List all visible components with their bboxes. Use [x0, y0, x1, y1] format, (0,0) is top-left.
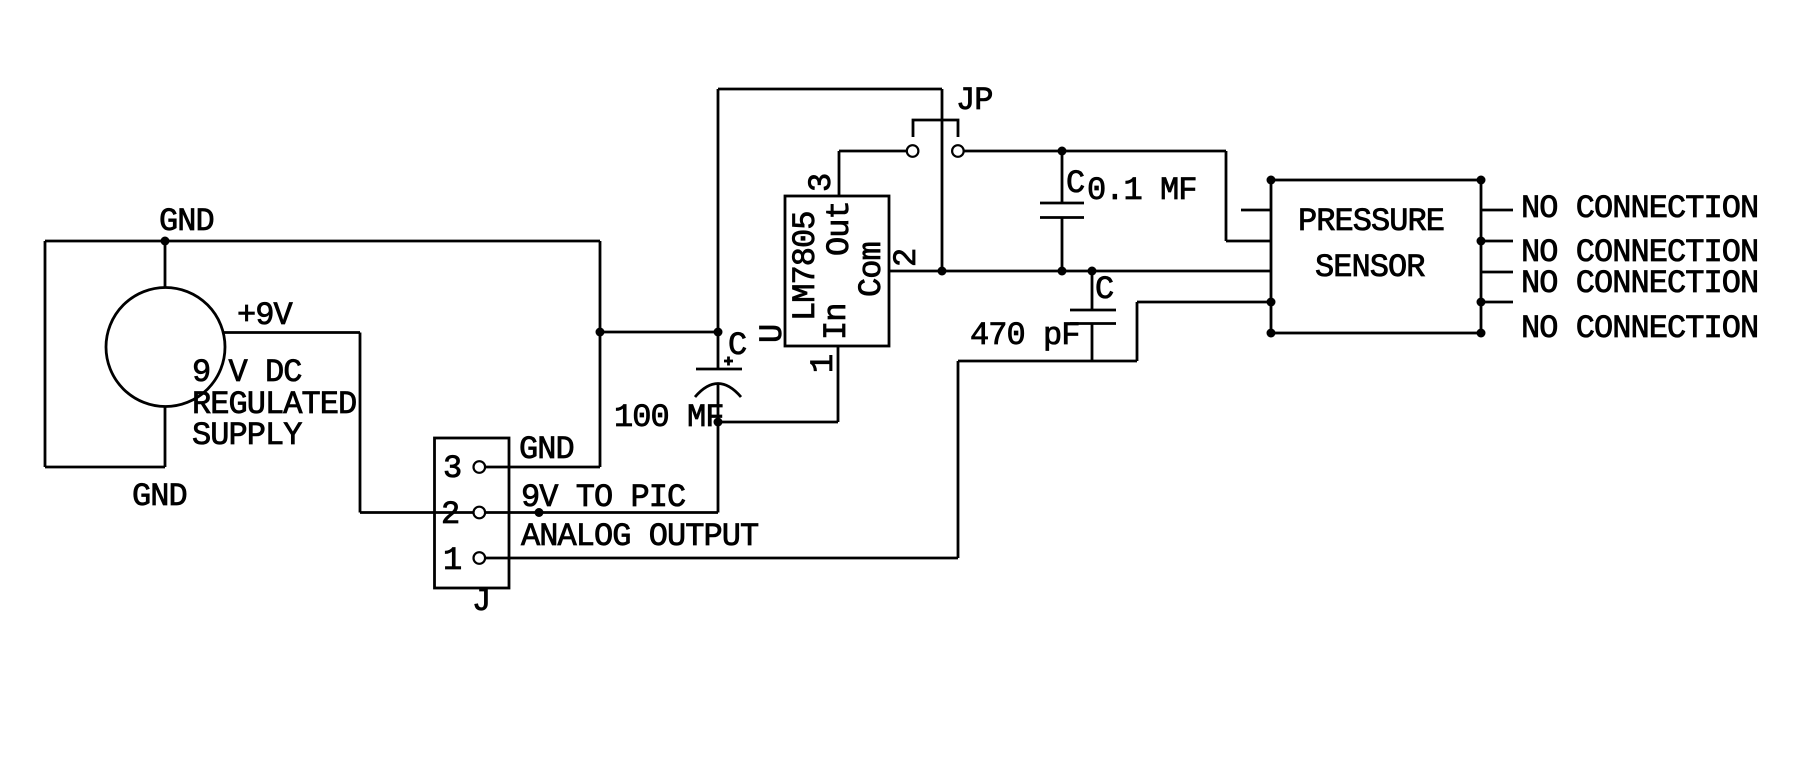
svg-text:2: 2	[441, 496, 459, 533]
node dot pin2 wire	[535, 508, 544, 517]
svg-text:J: J	[472, 583, 490, 620]
node dot right pin2	[1477, 237, 1486, 246]
node dot bottom	[1058, 267, 1067, 276]
wire +9V horizontal	[223, 331, 360, 334]
node dot 942,271	[938, 267, 947, 276]
wire supply loop left	[44, 241, 47, 467]
cap plate top	[1040, 202, 1084, 205]
node dot at 718,332	[714, 328, 723, 337]
net GND branch to regulator area	[485, 241, 723, 467]
wire pin1 In vertical	[837, 346, 840, 422]
wire analog horizontal	[958, 360, 1137, 363]
wire In to cap	[718, 421, 838, 424]
net +9V wiring	[223, 333, 474, 513]
svg-text:PRESSURE: PRESSURE	[1298, 203, 1444, 240]
wire cap lead bottom	[1061, 218, 1064, 272]
wire supply bottom lead	[164, 406, 167, 467]
wire Com rail	[889, 270, 1271, 273]
wire cap bottom lead	[717, 384, 720, 513]
wire cap lead top	[1091, 271, 1094, 310]
wire +9V vertical	[359, 333, 362, 513]
svg-text:2: 2	[888, 249, 925, 267]
svg-text:+9V: +9V	[237, 297, 294, 334]
wire +9V to J pin2	[360, 511, 474, 514]
wire top rail	[718, 88, 942, 91]
wire JP into sensor	[1226, 240, 1271, 243]
connector J box	[435, 438, 510, 588]
cap plate bottom	[1070, 322, 1116, 325]
wire JP right to sensor	[964, 150, 1226, 153]
wire JP vertical down	[1225, 151, 1228, 241]
cap plate straight	[696, 368, 742, 371]
svg-text:U: U	[754, 325, 791, 343]
left stub	[1241, 209, 1271, 212]
node GND junction dot	[161, 237, 170, 246]
capacitor C 470 pF	[970, 267, 1116, 362]
node dot top	[1058, 147, 1067, 156]
pin 1 circle	[474, 552, 486, 564]
svg-text:GND: GND	[159, 203, 214, 240]
svg-text:Com: Com	[853, 242, 890, 297]
svg-text:9V TO PIC: 9V TO PIC	[521, 479, 685, 516]
wire GND branch to cap	[600, 331, 718, 334]
svg-text:ANALOG OUTPUT: ANALOG OUTPUT	[521, 518, 758, 555]
svg-text:GND: GND	[519, 431, 574, 468]
wire pin3 Out vertical	[838, 151, 841, 196]
node dot corner TL	[1267, 176, 1276, 185]
cap plate curved	[695, 384, 741, 398]
regulator U LM7805	[718, 151, 1271, 422]
svg-text:NO CONNECTION: NO CONNECTION	[1521, 310, 1758, 347]
svg-text:In: In	[818, 303, 855, 340]
capacitor C 100 MF	[614, 89, 746, 513]
pin 3 circle	[474, 461, 486, 473]
wire GND top rail	[45, 240, 600, 243]
right stub 2	[1481, 240, 1513, 243]
right stub 1	[1481, 209, 1513, 212]
node dot corner TR	[1477, 176, 1486, 185]
wire supply loop bottom	[45, 466, 165, 469]
wire GND vertical x600	[599, 241, 602, 467]
node dot top	[1088, 267, 1097, 276]
cap plate bottom	[1040, 216, 1084, 219]
net analog output path	[958, 302, 1271, 558]
supply circle body	[106, 288, 225, 407]
svg-text:C: C	[1066, 165, 1084, 202]
wire J pin2 to regulator input	[485, 511, 718, 514]
svg-text:1: 1	[805, 355, 842, 373]
svg-text:470 pF: 470 pF	[970, 317, 1080, 354]
wire cap lead top	[1061, 151, 1064, 203]
node dot right pin4	[1477, 298, 1486, 307]
JP right pin circle	[952, 145, 964, 157]
right stub 3	[1481, 271, 1513, 274]
connector J	[435, 431, 959, 620]
wire analog vertical	[957, 361, 960, 558]
supply V1: 9V DC regulated supply	[45, 203, 600, 515]
wire cap top vertical	[717, 89, 720, 369]
svg-text:JP: JP	[956, 82, 993, 119]
JP bracket	[913, 120, 958, 137]
node dot at 600,332	[596, 328, 605, 337]
svg-text:3: 3	[443, 450, 461, 487]
svg-text:SUPPLY: SUPPLY	[192, 417, 302, 454]
wire J pin1 analog output	[485, 557, 958, 560]
cap plate top	[1070, 309, 1116, 312]
pressure sensor	[1241, 176, 1758, 348]
svg-text:1: 1	[443, 542, 461, 579]
wire analog vertical 2	[1136, 302, 1139, 361]
svg-text:GND: GND	[132, 478, 187, 515]
svg-text:NO CONNECTION: NO CONNECTION	[1521, 190, 1758, 227]
wire top rail down	[941, 89, 944, 271]
capacitor C 0.1 MF	[1040, 147, 1197, 276]
svg-text:3: 3	[803, 174, 840, 192]
svg-text:C: C	[728, 327, 746, 364]
JP left pin circle	[907, 145, 919, 157]
svg-text:100 MF: 100 MF	[614, 399, 724, 436]
svg-text:0.1 MF: 0.1 MF	[1087, 172, 1197, 209]
node dot left analog	[1267, 298, 1276, 307]
wire J pin3 to GND	[485, 466, 600, 469]
right stub 4	[1481, 301, 1513, 304]
wire analog into sensor	[1137, 301, 1271, 304]
regulator box	[785, 196, 889, 346]
svg-text:NO CONNECTION: NO CONNECTION	[1521, 265, 1758, 302]
node dot corner BL	[1267, 329, 1276, 338]
jumper JP	[718, 82, 1271, 276]
wire cap lead bottom	[1091, 324, 1094, 362]
pin 2 circle	[474, 507, 486, 519]
node dot corner BR	[1477, 329, 1486, 338]
wire supply top lead	[164, 241, 167, 288]
svg-text:C: C	[1095, 271, 1113, 308]
sensor box	[1271, 180, 1481, 333]
wire Out to JP left	[839, 150, 907, 153]
svg-text:SENSOR: SENSOR	[1315, 249, 1425, 286]
plus sign	[724, 360, 733, 363]
node dot cap to In	[714, 418, 723, 427]
